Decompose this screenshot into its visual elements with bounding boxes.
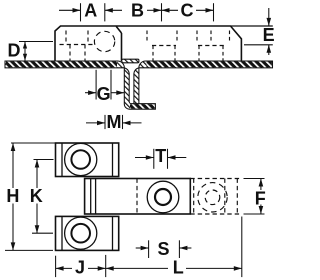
svg-text:B: B [131,0,144,20]
hidden leaf line (dashed horizontal, elevation) [60,45,226,46]
svg-text:L: L [173,258,184,278]
hidden slot edges far section (dashed verticals) [147,31,230,61]
hidden leaf extension (dashed rectangle) [190,179,242,215]
dimension M [86,112,142,132]
svg-text:A: A [84,0,97,20]
knuckle tab through slot (hatched cap) [122,59,139,63]
svg-text:C: C [181,0,194,20]
dimension K [30,160,54,234]
dimension A [59,0,105,21]
svg-text:M: M [107,112,122,132]
bottom-left knuckle block [56,216,119,250]
svg-text:F: F [255,188,266,208]
dimension E [231,8,275,55]
dimension G [85,70,124,104]
dimension C [162,0,214,21]
hidden stud circle (dashed, elevation) [94,31,114,51]
svg-text:D: D [8,41,21,61]
hidden slot edges near block (dashed verticals) [66,31,88,61]
center leaf strip [85,179,191,215]
dimension S [136,239,192,259]
mounting leaf right section (hatched, bends down into slot) [134,61,273,104]
center knuckle bushing [147,181,179,213]
svg-text:K: K [30,186,43,206]
top-left knuckle block [56,143,119,177]
hinge body outline (elevation) [55,26,241,61]
svg-text:T: T [155,146,166,166]
svg-text:H: H [6,186,19,206]
hidden bend line in strip (dashed) [136,179,138,215]
svg-text:E: E [263,25,275,45]
dimension F [244,179,266,215]
svg-text:S: S [157,239,169,259]
dimension J [56,255,106,278]
bottom-left bushing [65,217,97,249]
dimension L [106,217,242,278]
dimension D [8,41,54,61]
mounting leaf left section (hatched, bends down into slot) [5,61,155,109]
hidden bushing (dashed circles) [198,183,227,212]
svg-text:G: G [97,84,111,104]
dimension H [5,143,55,250]
top-left bushing [65,143,97,175]
svg-text:J: J [75,258,85,278]
near knuckle right chamfer edge (elevation) [116,26,121,61]
dimension B [105,0,162,21]
dimension T [135,146,186,169]
